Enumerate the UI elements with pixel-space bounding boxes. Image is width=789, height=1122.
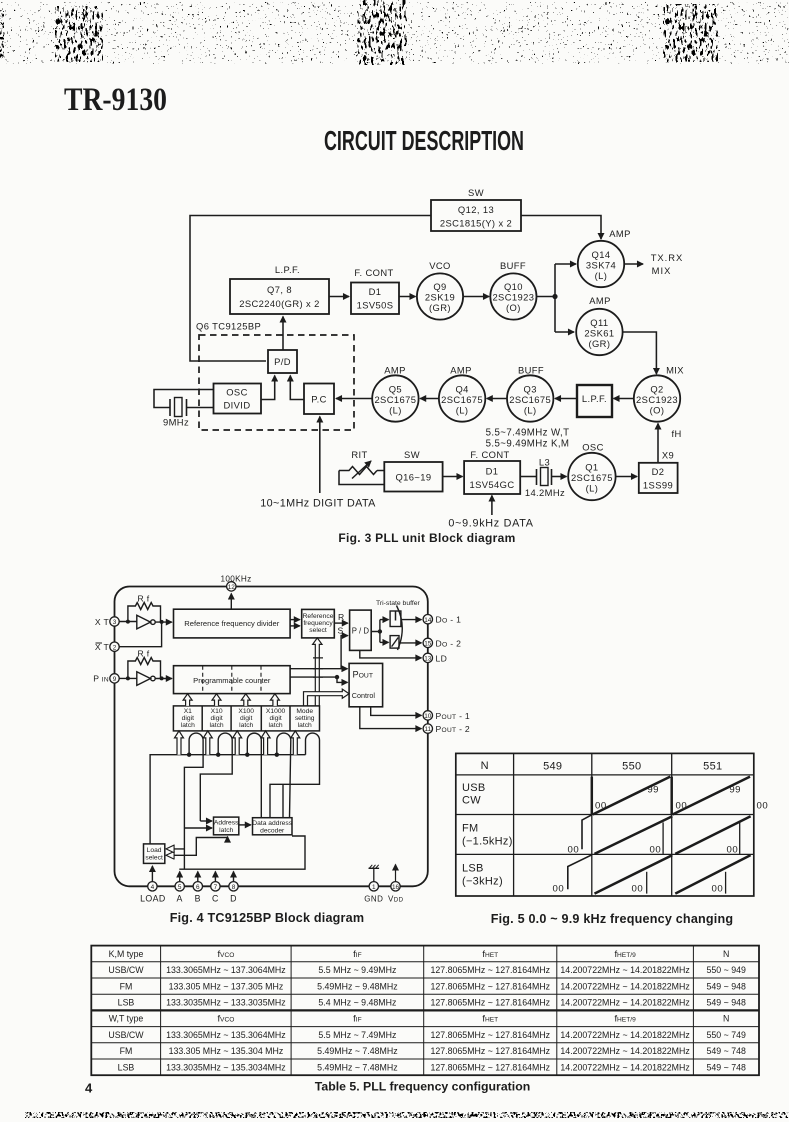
svg-text:frequency: frequency xyxy=(303,620,333,627)
svg-text:AMP: AMP xyxy=(450,365,472,376)
pin 9 xyxy=(110,674,119,683)
pin 2 xyxy=(110,642,119,651)
label reference frequency select xyxy=(303,613,334,634)
resistor Rf feedback loop 2 xyxy=(128,658,161,679)
svg-text:549 ~ 748: 549 ~ 748 xyxy=(707,1046,746,1056)
svg-text:14.200722MHz ~ 14.201822MHz: 14.200722MHz ~ 14.201822MHz xyxy=(560,981,689,991)
svg-text:select: select xyxy=(145,854,163,861)
svg-text:00: 00 xyxy=(568,844,580,855)
svg-text:13: 13 xyxy=(424,656,432,663)
svg-text:550: 550 xyxy=(622,760,641,772)
P/D box xyxy=(268,350,297,373)
svg-text:L.P.F.: L.P.F. xyxy=(582,393,607,404)
svg-text:Table 5. PLL frequency config: Table 5. PLL frequency configuration xyxy=(315,1080,530,1094)
wire pin 6 up xyxy=(197,872,199,882)
BUFF circle Q10 xyxy=(490,273,536,319)
svg-text:fIF: fIF xyxy=(353,1013,361,1024)
svg-text:1SS99: 1SS99 xyxy=(643,480,673,491)
svg-text:Q9: Q9 xyxy=(433,281,446,292)
svg-text:P/D: P/D xyxy=(274,356,291,367)
pin 8 xyxy=(229,882,238,891)
wire counter to P/D S input xyxy=(341,636,348,669)
box load select xyxy=(144,844,165,864)
svg-text:14.200722MHz ~ 14.201822MHz: 14.200722MHz ~ 14.201822MHz xyxy=(560,1046,689,1056)
svg-text:10: 10 xyxy=(424,713,432,720)
wire decoder entry xyxy=(282,784,284,817)
wire arc hop 3 (X100 latch data) xyxy=(247,733,261,818)
sawtooth LSB row xyxy=(568,855,592,890)
svg-text:Q2: Q2 xyxy=(650,384,663,395)
svg-text:549 ~ 948: 549 ~ 948 xyxy=(707,981,746,991)
svg-text:16: 16 xyxy=(392,884,400,891)
svg-text:Q10: Q10 xyxy=(504,281,523,292)
svg-text:USB: USB xyxy=(462,782,486,794)
box reference frequency select xyxy=(302,609,335,638)
svg-text:11: 11 xyxy=(424,726,431,733)
svg-text:Tri-state buffer: Tri-state buffer xyxy=(376,600,421,607)
switch box Q16~19 xyxy=(384,462,442,492)
svg-text:POUT: POUT xyxy=(353,670,374,680)
svg-text:551: 551 xyxy=(703,760,722,772)
wire Pout to pin 10 xyxy=(371,707,422,716)
wire junction vertical xyxy=(554,264,556,332)
svg-text:Reference frequency divider: Reference frequency divider xyxy=(184,619,279,628)
node junction dot xyxy=(552,294,557,299)
Vdd arrow symbol xyxy=(395,865,397,882)
svg-text:FM: FM xyxy=(462,823,478,835)
svg-text:setting: setting xyxy=(295,715,315,722)
svg-text:AMP: AMP xyxy=(384,365,406,376)
svg-text:N: N xyxy=(723,1014,729,1024)
svg-text:99: 99 xyxy=(647,785,659,796)
pin 15 xyxy=(423,638,432,647)
svg-text:Q7, 8: Q7, 8 xyxy=(267,284,292,295)
svg-text:fHET: fHET xyxy=(482,1013,498,1024)
AMP circle Q11 xyxy=(576,309,622,355)
svg-text:X1000: X1000 xyxy=(266,708,286,715)
svg-text:14.2MHz: 14.2MHz xyxy=(525,487,565,498)
pin 5 xyxy=(175,882,184,891)
svg-text:15: 15 xyxy=(424,641,432,648)
svg-text:Programmable counter: Programmable counter xyxy=(193,676,271,685)
svg-text:5.49MHz ~ 9.48MHz: 5.49MHz ~ 9.48MHz xyxy=(317,981,397,991)
svg-text:X100: X100 xyxy=(238,708,254,715)
svg-text:LSB: LSB xyxy=(118,1062,135,1072)
svg-text:fHET/9: fHET/9 xyxy=(614,948,636,959)
VCO circle Q9 xyxy=(417,273,463,319)
svg-text:D1: D1 xyxy=(369,286,382,297)
X9 box D2 xyxy=(639,463,678,493)
F.CONT box D1 1SV54GC xyxy=(464,461,520,494)
svg-text:X1: X1 xyxy=(184,708,192,715)
svg-text:USB/CW: USB/CW xyxy=(108,965,144,975)
svg-text:fHET: fHET xyxy=(482,948,498,959)
svg-text:fH: fH xyxy=(672,428,682,439)
svg-text:LSB: LSB xyxy=(462,863,484,875)
tri-state control arc xyxy=(397,606,403,651)
box reference frequency divider xyxy=(174,609,291,638)
svg-text:CIRCUIT DESCRIPTION: CIRCUIT DESCRIPTION xyxy=(324,125,524,156)
inverter U2 triangle xyxy=(137,672,151,686)
IC dashed box Q6 TC9125BP xyxy=(199,335,354,430)
svg-text:Load: Load xyxy=(147,847,162,854)
box data address decoder xyxy=(253,818,293,835)
P.C box xyxy=(304,384,334,415)
sawtooth FM row xyxy=(582,815,592,850)
wire SW left to P/D xyxy=(190,216,431,362)
wire Q3 to Q4 xyxy=(487,398,507,400)
svg-text:RIT: RIT xyxy=(351,449,367,460)
wire P.C to P/D xyxy=(290,376,304,400)
crystal X1 9MHz xyxy=(170,398,187,417)
svg-text:latch: latch xyxy=(181,722,195,729)
wire counter to Pout box 2 xyxy=(290,677,347,682)
wire Pout to pin 11 xyxy=(360,707,422,729)
wire buffer2 to pin 15 xyxy=(399,642,421,644)
svg-text:133.305 MHz ~ 135.304 MHz: 133.305 MHz ~ 135.304 MHz xyxy=(169,1046,284,1056)
svg-text:L.P.F.: L.P.F. xyxy=(275,264,300,275)
tri-state buffer 2 xyxy=(390,636,399,649)
svg-text:9: 9 xyxy=(113,676,117,683)
svg-text:LOAD: LOAD xyxy=(140,894,166,904)
svg-text:D1: D1 xyxy=(486,466,499,477)
svg-text:(L): (L) xyxy=(389,405,402,416)
svg-text:Q11: Q11 xyxy=(590,317,608,328)
svg-text:9MHz: 9MHz xyxy=(163,417,189,428)
wire junction to Q11 xyxy=(555,331,574,333)
hollow arrow mode latch to Pout control xyxy=(304,689,350,705)
RIT potentiometer xyxy=(339,467,377,475)
inductor filter L3 xyxy=(537,468,552,486)
svg-text:SW: SW xyxy=(468,187,484,198)
OSC circle Q1 xyxy=(568,453,615,500)
wire arc hop 4 (X1000 latch data) xyxy=(277,733,291,818)
svg-text:Control: Control xyxy=(352,691,376,700)
wire kHz data to F.CONT2 xyxy=(491,496,493,516)
hollow arrow X10 latch to counter xyxy=(212,694,221,706)
svg-text:5.5 MHz ~ 9.49MHz: 5.5 MHz ~ 9.49MHz xyxy=(318,965,396,975)
wire arc hop 2 (X10 latch data) xyxy=(200,733,232,821)
svg-text:fIF: fIF xyxy=(353,948,361,959)
svg-text:AMP: AMP xyxy=(609,228,631,239)
svg-text:POUT - 1: POUT - 1 xyxy=(436,711,471,721)
svg-text:TX.RX: TX.RX xyxy=(651,252,684,263)
svg-text:00: 00 xyxy=(595,801,607,812)
wire counter to Pout box xyxy=(290,668,347,670)
svg-text:F. CONT: F. CONT xyxy=(470,449,509,460)
AMP circle Q4 xyxy=(439,375,485,421)
hollow arrow bus to X1000 latch xyxy=(261,731,270,755)
svg-text:DO - 1: DO - 1 xyxy=(436,615,462,625)
svg-text:(L): (L) xyxy=(524,405,537,416)
svg-text:A: A xyxy=(177,894,183,904)
svg-text:N: N xyxy=(481,760,489,772)
wire Q2 to L.P.F.2 xyxy=(614,398,634,400)
svg-text:latch: latch xyxy=(210,722,224,729)
wire divider to pin 12 xyxy=(230,594,232,610)
svg-text:(−1.5kHz): (−1.5kHz) xyxy=(462,836,513,848)
svg-text:100KHz: 100KHz xyxy=(221,575,252,584)
svg-text:latch: latch xyxy=(239,722,253,729)
IC outline TC9125BP xyxy=(115,587,428,887)
hollow arrow bus to X10 latch xyxy=(203,731,212,755)
svg-text:127.8065MHz ~ 127.8164MHz: 127.8065MHz ~ 127.8164MHz xyxy=(431,965,551,975)
wire arc hop 1 (X1 latch data) xyxy=(184,733,203,869)
svg-text:00: 00 xyxy=(757,801,769,812)
svg-text:127.8065MHz ~ 127.8164MHz: 127.8065MHz ~ 127.8164MHz xyxy=(431,1062,551,1072)
svg-text:2SC1675: 2SC1675 xyxy=(441,394,483,405)
svg-text:LSB: LSB xyxy=(118,998,135,1008)
L.P.F. box Q7,8 xyxy=(230,279,329,314)
svg-text:1SV50S: 1SV50S xyxy=(357,300,394,311)
svg-text:fVCO: fVCO xyxy=(217,948,234,959)
scan noise band top xyxy=(0,0,789,65)
hollow arrow X1000 latch to counter xyxy=(270,694,279,706)
wire Q1 to D2 xyxy=(616,476,637,478)
wire buffer1 to pin 14 xyxy=(401,619,422,621)
svg-text:K,M type: K,M type xyxy=(109,949,144,959)
svg-text:4: 4 xyxy=(151,884,155,891)
svg-text:127.8065MHz ~ 127.8164MHz: 127.8065MHz ~ 127.8164MHz xyxy=(431,1030,551,1040)
svg-text:(GR): (GR) xyxy=(429,302,451,313)
wire BUFF to junction xyxy=(537,296,556,298)
switch box Q12,13 xyxy=(431,200,521,231)
svg-text:133.3035MHz ~ 133.3035MHz: 133.3035MHz ~ 133.3035MHz xyxy=(166,998,286,1008)
svg-text:2SK19: 2SK19 xyxy=(425,292,455,303)
svg-text:fHET/9: fHET/9 xyxy=(614,1013,636,1024)
svg-text:C: C xyxy=(212,894,219,904)
box programmable counter xyxy=(174,666,291,694)
hollow arrow mode latch to freq select xyxy=(313,638,322,706)
svg-text:5.5 MHz ~ 7.49MHz: 5.5 MHz ~ 7.49MHz xyxy=(318,1030,396,1040)
wire Q11 to Q2 MIX xyxy=(623,332,657,374)
svg-text:8: 8 xyxy=(232,884,236,891)
svg-text:2SC1923: 2SC1923 xyxy=(492,292,534,303)
wire A-D data line xyxy=(179,836,305,869)
svg-text:(L): (L) xyxy=(456,405,469,416)
wire RIT loop xyxy=(339,471,384,485)
svg-text:SW: SW xyxy=(404,449,420,460)
svg-text:Q4: Q4 xyxy=(455,384,468,395)
svg-text:5.5~9.49MHz K,M: 5.5~9.49MHz K,M xyxy=(486,439,570,450)
svg-text:D: D xyxy=(230,894,237,904)
svg-text:P.C: P.C xyxy=(311,394,327,405)
svg-text:4: 4 xyxy=(85,1081,93,1096)
svg-text:FM: FM xyxy=(120,981,133,991)
svg-text:00: 00 xyxy=(712,883,724,894)
svg-text:DO - 2: DO - 2 xyxy=(436,638,462,648)
svg-text:VCO: VCO xyxy=(429,260,451,271)
pin 11 xyxy=(423,724,432,733)
svg-text:Mode: Mode xyxy=(296,708,313,715)
svg-text:00: 00 xyxy=(727,844,739,855)
svg-text:Address: Address xyxy=(214,820,239,827)
svg-text:OSC: OSC xyxy=(582,442,604,453)
scan noise strip bottom xyxy=(25,1112,789,1118)
wire P/D up to L.P.F. xyxy=(282,317,284,351)
svg-text:R: R xyxy=(338,612,345,622)
pin 3 xyxy=(110,617,119,626)
svg-text:VDD: VDD xyxy=(388,895,404,904)
svg-text:(L): (L) xyxy=(586,483,599,494)
wire F.CONT2 to L3 xyxy=(520,476,536,478)
svg-text:Q5: Q5 xyxy=(389,384,402,395)
svg-text:Fig. 5 0.0 ~ 9.9 kHz frequenc: Fig. 5 0.0 ~ 9.9 kHz frequency changing xyxy=(491,912,734,926)
svg-text:MIX: MIX xyxy=(666,365,684,376)
svg-text:select: select xyxy=(309,627,327,634)
svg-text:549: 549 xyxy=(543,760,562,772)
MIX circle Q2 xyxy=(634,375,680,421)
wire D2 to Q2 fH xyxy=(657,424,659,463)
svg-text:Fig. 3 PLL unit Block diagra: Fig. 3 PLL unit Block diagram xyxy=(338,531,515,545)
pin 16 xyxy=(391,882,400,891)
svg-text:10~1MHz DIGIT DATA: 10~1MHz DIGIT DATA xyxy=(260,498,376,510)
svg-text:549 ~ 948: 549 ~ 948 xyxy=(707,998,746,1008)
svg-text:decoder: decoder xyxy=(260,827,285,834)
svg-text:14.200722MHz ~ 14.201822MHz: 14.200722MHz ~ 14.201822MHz xyxy=(560,998,689,1008)
box address latch xyxy=(214,817,239,835)
wire SW right to Q14 top xyxy=(521,216,601,240)
svg-text:L3: L3 xyxy=(539,457,550,468)
svg-text:digit: digit xyxy=(269,715,281,722)
svg-text:X9: X9 xyxy=(662,450,674,461)
svg-text:12: 12 xyxy=(228,584,236,591)
svg-text:3SK74: 3SK74 xyxy=(586,260,616,271)
junction nodes oscillator 1 xyxy=(126,620,130,624)
svg-text:TR-9130: TR-9130 xyxy=(64,82,167,118)
svg-text:Q1: Q1 xyxy=(585,462,598,473)
svg-text:CW: CW xyxy=(462,795,481,807)
svg-text:BUFF: BUFF xyxy=(500,260,526,271)
svg-text:digit: digit xyxy=(240,715,252,722)
svg-text:00: 00 xyxy=(632,883,644,894)
box Pout control xyxy=(349,663,383,706)
svg-text:3: 3 xyxy=(113,619,117,626)
svg-text:B: B xyxy=(195,894,201,904)
hollow arrow bus to X1 latch xyxy=(175,731,184,755)
hollow arrow bus to X100 latch xyxy=(233,731,242,755)
svg-text:2SC1923: 2SC1923 xyxy=(636,394,678,405)
svg-text:2: 2 xyxy=(113,644,117,651)
svg-text:2SC1815(Y) x 2: 2SC1815(Y) x 2 xyxy=(440,218,512,229)
wire L.P.F.2 to Q3 xyxy=(555,398,577,400)
wire P/D to pin 13 LD xyxy=(360,650,422,658)
wire P/D to tri-state buffers xyxy=(371,620,388,643)
wire pin 9 to inverter xyxy=(119,677,137,679)
wire pin 2 to node xyxy=(119,623,162,647)
svg-text:DIVID: DIVID xyxy=(223,400,250,411)
svg-text:Q3: Q3 xyxy=(524,384,537,395)
svg-text:(O): (O) xyxy=(650,405,665,416)
svg-text:F. CONT: F. CONT xyxy=(354,267,393,278)
svg-text:5.49MHz ~ 7.48MHz: 5.49MHz ~ 7.48MHz xyxy=(317,1062,397,1072)
svg-text:127.8065MHz ~ 127.8164MHz: 127.8065MHz ~ 127.8164MHz xyxy=(431,981,551,991)
svg-text:R f: R f xyxy=(138,649,150,659)
wire address latch to decoder xyxy=(239,824,251,826)
svg-text:latch: latch xyxy=(269,722,283,729)
pin 1 xyxy=(369,882,378,891)
inverter U1 triangle xyxy=(137,615,151,629)
pin 12 xyxy=(227,582,236,591)
resistor Rf feedback loop 1 xyxy=(128,603,161,622)
svg-text:00: 00 xyxy=(553,883,565,894)
wire L.P.F. to F.CONT xyxy=(329,296,349,298)
svg-text:Q16~19: Q16~19 xyxy=(395,472,431,483)
svg-text:latch: latch xyxy=(219,827,233,834)
pin 7 xyxy=(211,882,220,891)
svg-text:Q6 TC9125BP: Q6 TC9125BP xyxy=(196,321,261,332)
svg-text:549 ~ 748: 549 ~ 748 xyxy=(707,1062,746,1072)
wire Q5 to P.C xyxy=(336,398,372,400)
wire F.CONT to VCO xyxy=(399,296,416,298)
svg-text:Q14: Q14 xyxy=(592,249,611,260)
svg-text:99: 99 xyxy=(729,785,741,796)
svg-text:14.200722MHz ~ 14.201822MHz: 14.200722MHz ~ 14.201822MHz xyxy=(560,965,689,975)
svg-text:0~9.9kHz DATA: 0~9.9kHz DATA xyxy=(448,518,533,530)
wire pin 7 up xyxy=(214,872,216,882)
svg-text:127.8065MHz ~ 127.8164MHz: 127.8065MHz ~ 127.8164MHz xyxy=(431,1046,551,1056)
svg-text:14: 14 xyxy=(424,617,432,624)
pin 6 xyxy=(193,882,202,891)
wire address latch bottom loop xyxy=(167,837,227,855)
BUFF circle Q3 xyxy=(507,375,553,421)
wire SW2 to F.CONT2 xyxy=(443,476,463,478)
wire overdraw across hollow arrows xyxy=(313,658,323,677)
AMP circle Q5 xyxy=(372,375,418,421)
wire to load select upper xyxy=(167,848,184,850)
svg-text:2SC2240(GR) x 2: 2SC2240(GR) x 2 xyxy=(239,298,320,309)
svg-text:Q12, 13: Q12, 13 xyxy=(458,204,494,215)
svg-text:133.3065MHz ~ 135.3064MHz: 133.3065MHz ~ 135.3064MHz xyxy=(166,1030,286,1040)
svg-text:S: S xyxy=(338,626,344,636)
wire freq select to P/D R input xyxy=(334,622,348,624)
svg-text:Data address: Data address xyxy=(252,820,292,827)
svg-text:LD: LD xyxy=(436,653,448,663)
wire pin 8 up xyxy=(233,872,235,882)
wire inverter2 to counter xyxy=(155,678,172,680)
svg-text:digit: digit xyxy=(210,715,222,722)
wire junction to Q14 xyxy=(555,263,576,265)
wire to address latch upper xyxy=(200,820,212,822)
wire to address latch lower xyxy=(184,827,212,829)
svg-text:N: N xyxy=(723,949,729,959)
svg-text:7: 7 xyxy=(214,884,218,891)
pin 4 xyxy=(148,882,157,891)
svg-text:133.3035MHz ~ 135.3034MHz: 133.3035MHz ~ 135.3034MHz xyxy=(166,1062,286,1072)
wire L3 to Q1 xyxy=(552,476,567,478)
svg-text:6: 6 xyxy=(196,884,200,891)
svg-text:5: 5 xyxy=(178,884,182,891)
svg-text:2SC1675: 2SC1675 xyxy=(571,472,613,483)
L.P.F.2 box xyxy=(577,385,612,417)
svg-text:FM: FM xyxy=(120,1046,133,1056)
svg-text:133.3065MHz ~ 137.3064MHz: 133.3065MHz ~ 137.3064MHz xyxy=(166,965,286,975)
pin 14 xyxy=(423,615,432,624)
wire pin 4 to load select xyxy=(151,866,153,882)
wire load strobe bus xyxy=(150,755,305,844)
F.CONT box D1 xyxy=(351,283,399,315)
wire Q14 out to TX.RX MIX xyxy=(624,263,643,265)
svg-text:W,T type: W,T type xyxy=(109,1014,144,1024)
wire digit data to P.C xyxy=(319,417,321,494)
sawtooth USB/CW row xyxy=(592,777,750,815)
junction node counter out xyxy=(335,675,339,679)
svg-text:133.305 MHz ~ 137.305 MHz: 133.305 MHz ~ 137.305 MHz xyxy=(169,981,284,991)
wire crystal loop xyxy=(154,390,214,408)
ground symbol xyxy=(369,868,380,881)
svg-text:USB/CW: USB/CW xyxy=(108,1030,144,1040)
svg-text:X10: X10 xyxy=(211,708,223,715)
